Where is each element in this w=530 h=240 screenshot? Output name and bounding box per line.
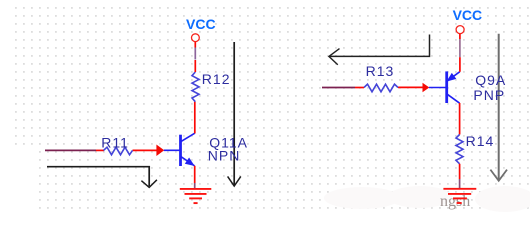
ground (right) bbox=[443, 189, 476, 203]
wire: right base feed bbox=[322, 86, 423, 88]
watermark blob bbox=[0, 148, 530, 215]
transistor Q11A bbox=[164, 133, 248, 166]
svg-text:NPN: NPN bbox=[208, 147, 241, 163]
svg-text:ngsh: ngsh bbox=[440, 193, 470, 210]
svg-text:VCC: VCC bbox=[186, 16, 216, 32]
wire: emitter of Q11A to ground bbox=[194, 166, 196, 189]
resistor R11 bbox=[101, 135, 132, 155]
svg-text:PNP: PNP bbox=[473, 87, 505, 103]
svg-text:VCC: VCC bbox=[453, 7, 483, 23]
node arrow: base of Q11A bbox=[156, 145, 164, 157]
wire: VCC to R12 bbox=[194, 42, 196, 72]
svg-text:R12: R12 bbox=[202, 71, 231, 87]
annotation arrow: output line (left circuit, vertical down) bbox=[228, 42, 241, 186]
wire: collector of Q9A to R14 bbox=[459, 103, 461, 135]
svg-text:R13: R13 bbox=[366, 63, 395, 79]
annotation arrow: input loop (right, bent left) bbox=[329, 35, 430, 65]
power port VCC (right) bbox=[453, 7, 483, 34]
wire: VCC to emitter of Q9A bbox=[459, 34, 461, 72]
svg-text:Q9A: Q9A bbox=[475, 72, 506, 88]
wire: collector of Q11A to R12 bbox=[194, 102, 196, 134]
annotation arrow: output line (right circuit, vertical down) bbox=[490, 34, 507, 181]
resistor R12 bbox=[192, 71, 230, 102]
svg-text:R11: R11 bbox=[101, 135, 129, 151]
resistor R13 bbox=[364, 63, 398, 92]
node arrow: base of Q9A bbox=[423, 83, 430, 93]
resistor R14 bbox=[456, 133, 494, 164]
wire: left base feed bbox=[45, 149, 157, 151]
ground (left) bbox=[180, 189, 212, 203]
wire: R14 to ground bbox=[459, 164, 461, 189]
transistor Q9A bbox=[429, 71, 506, 103]
power port VCC (left) bbox=[186, 16, 216, 42]
annotation arrow: input loop (left, bent down) bbox=[47, 167, 157, 188]
svg-text:R14: R14 bbox=[466, 133, 495, 149]
